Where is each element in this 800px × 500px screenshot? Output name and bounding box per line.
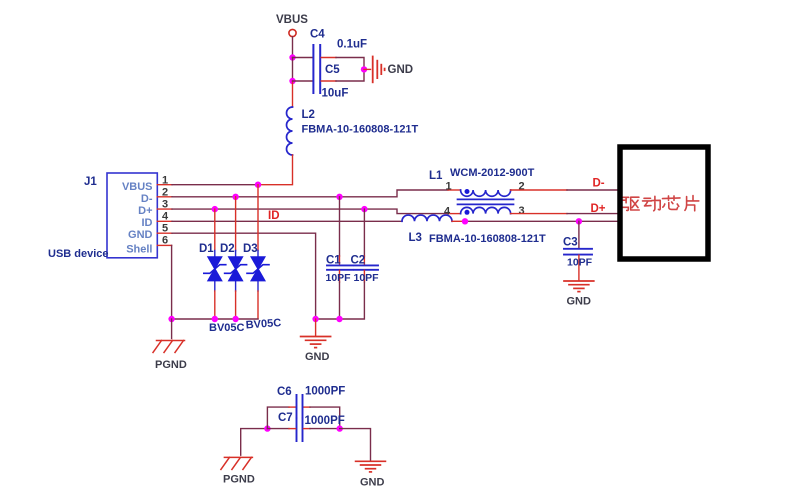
wire C6 top branch <box>267 407 289 429</box>
wire to PGND <box>171 319 173 339</box>
wire pin5 down to GND <box>315 319 317 336</box>
svg-text:C6: C6 <box>277 386 292 398</box>
wire right bottom to GND <box>340 429 371 461</box>
svg-text:1000PF: 1000PF <box>305 386 345 398</box>
node D- / C1 junction <box>336 194 342 200</box>
svg-text:D1: D1 <box>199 243 214 255</box>
capacitor C2 <box>340 209 379 319</box>
svg-text:Shell: Shell <box>126 244 152 256</box>
wire shell ground bus <box>172 318 258 320</box>
node D+ / C2 junction <box>361 206 367 212</box>
svg-text:GND: GND <box>360 477 385 489</box>
svg-text:L2: L2 <box>302 109 315 121</box>
svg-text:10PF: 10PF <box>567 257 593 269</box>
node C6 C7 right junction <box>337 425 343 431</box>
svg-text:WCM-2012-900T: WCM-2012-900T <box>450 167 535 179</box>
svg-text:GND: GND <box>388 64 414 76</box>
ground GND at C3 <box>564 281 594 292</box>
svg-text:C3: C3 <box>563 237 578 249</box>
driver chip box <box>620 147 708 259</box>
label driver chip characters <box>623 196 699 211</box>
wire C5 bottom branch right <box>321 80 336 82</box>
wire C4 top branch right <box>321 57 336 59</box>
wire VBUS circle to node <box>292 37 294 58</box>
char dong <box>643 196 661 211</box>
ground sideways power GND <box>373 57 385 83</box>
svg-text:D-: D- <box>141 193 153 205</box>
svg-text:PGND: PGND <box>223 474 255 486</box>
wire D+ to chip <box>511 213 567 215</box>
svg-text:10uF: 10uF <box>322 88 349 100</box>
wire left bottom to dot <box>241 429 268 456</box>
wire to GND symbol <box>364 68 371 70</box>
svg-text:1: 1 <box>446 181 452 193</box>
node C3 tap junction <box>576 218 582 224</box>
svg-text:ID: ID <box>268 210 280 222</box>
node VBUS lower junction <box>289 78 295 84</box>
ground GND bottom <box>356 461 386 472</box>
connector J1 body <box>107 173 157 258</box>
VBUS port circle <box>289 29 296 36</box>
capacitor C3 <box>564 221 592 280</box>
node L3 output junction <box>462 218 468 224</box>
svg-text:10PF: 10PF <box>354 272 380 284</box>
svg-text:L1: L1 <box>429 170 443 182</box>
wire pin1 VBUS rail <box>157 184 172 186</box>
svg-text:VBUS: VBUS <box>122 181 153 193</box>
node VBUS / D3 junction <box>255 182 261 188</box>
ground PGND bottom <box>221 457 253 469</box>
svg-text:0.1uF: 0.1uF <box>337 39 367 51</box>
svg-text:GND: GND <box>128 229 153 241</box>
svg-text:D3: D3 <box>243 243 258 255</box>
svg-text:GND: GND <box>305 351 330 363</box>
diode D2 TVS <box>225 197 247 319</box>
svg-text:D2: D2 <box>220 243 235 255</box>
svg-text:FBMA-10-160808-121T: FBMA-10-160808-121T <box>429 233 546 245</box>
svg-text:C4: C4 <box>310 29 325 41</box>
svg-text:L3: L3 <box>409 232 422 244</box>
svg-text:D-: D- <box>593 178 605 190</box>
svg-text:PGND: PGND <box>155 359 187 371</box>
node D2 bus junction <box>232 316 238 322</box>
capacitor C5 <box>313 70 320 93</box>
wire L2 to VBUS rail <box>258 155 293 185</box>
svg-text:BV05C: BV05C <box>209 322 245 334</box>
wire pin6 Shell line <box>157 244 171 246</box>
node C6 C7 left junction <box>264 425 270 431</box>
ground GND middle <box>301 337 331 348</box>
diode D3 TVS <box>247 185 269 319</box>
wire between junctions <box>292 58 294 82</box>
wire C7 bottom branch <box>267 428 289 430</box>
svg-text:D+: D+ <box>591 203 606 215</box>
capacitor C1 <box>327 197 353 319</box>
diode D1 TVS <box>204 209 226 319</box>
inductor L1 common mode choke <box>458 189 514 215</box>
wire pin4 ID line <box>157 220 172 222</box>
wire pin2 D- line <box>157 196 172 198</box>
svg-text:C5: C5 <box>325 64 340 76</box>
node gnd bus C1 <box>336 316 342 322</box>
wire pin5 GND line <box>157 232 172 234</box>
svg-text:C1: C1 <box>326 255 341 267</box>
char xin <box>663 196 681 210</box>
inductor L3 <box>402 215 452 221</box>
svg-text:C7: C7 <box>278 412 293 424</box>
svg-text:D+: D+ <box>138 205 152 217</box>
node GND tap junction <box>361 66 367 72</box>
node VBUS upper junction <box>289 54 295 60</box>
svg-text:VBUS: VBUS <box>276 14 308 26</box>
wire C4 top branch left <box>293 57 313 59</box>
svg-text:C2: C2 <box>351 255 366 267</box>
wire pin3 D+ line <box>157 208 172 210</box>
node shell bus left <box>168 316 174 322</box>
node D1 bus junction <box>212 316 218 322</box>
svg-text:3: 3 <box>519 205 525 217</box>
capacitor C6 plates <box>297 395 303 418</box>
capacitor C7 plates <box>297 419 303 442</box>
wire L3 to chip <box>452 220 465 222</box>
node D- / D2 junction <box>232 194 238 200</box>
inductor L2 <box>287 107 293 155</box>
svg-text:ID: ID <box>142 217 153 229</box>
ground PGND chassis <box>153 341 185 353</box>
wire D- to chip <box>511 189 567 191</box>
char qu <box>623 197 640 210</box>
svg-text:10PF: 10PF <box>326 272 352 284</box>
svg-text:GND: GND <box>567 296 592 308</box>
capacitor C4 <box>313 45 320 68</box>
node D+ / D1 junction <box>212 206 218 212</box>
char pian <box>685 196 699 211</box>
wire node to L2 <box>292 81 294 107</box>
svg-text:USB device: USB device <box>48 248 109 260</box>
wire gnd bus right <box>316 318 340 320</box>
svg-text:1000PF: 1000PF <box>305 415 345 427</box>
svg-text:J1: J1 <box>84 176 97 188</box>
svg-text:FBMA-10-160808-121T: FBMA-10-160808-121T <box>302 124 419 136</box>
wire C5 bottom branch left <box>293 80 313 82</box>
node gnd bus pin5 <box>312 316 318 322</box>
